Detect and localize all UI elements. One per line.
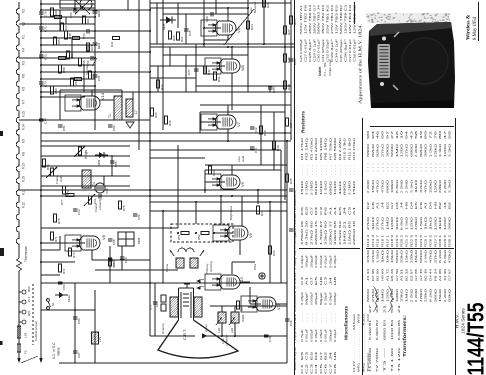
transformer T4: [82, 170, 91, 188]
svg-text:90: 90: [366, 130, 370, 139]
junction dots osc: [177, 232, 179, 234]
capacitor C81: [58, 124, 63, 126]
enclosure line oscillator (dashed): [171, 224, 233, 242]
valve V7: [201, 114, 236, 130]
resistor R52: [201, 231, 209, 234]
wire ladder link a: [59, 10, 61, 31]
rule mid/right divider: [362, 118, 364, 375]
wire right bus E: [280, 150, 282, 283]
svg-text:V5: V5: [22, 87, 26, 91]
svg-text:C23: C23: [293, 59, 297, 65]
svg-text:470kΩ: 470kΩ: [419, 289, 423, 302]
wire top stub x264: [263, 0, 265, 44]
wire ladder rung: [41, 44, 95, 46]
junction dots rails: [162, 210, 164, 212]
rectifier MR8 bridge: [118, 232, 134, 246]
wire rail y92: [150, 91, 291, 93]
svg-text:V2: V2: [22, 9, 26, 13]
deflection coil right: [194, 297, 202, 317]
svg-text:R71: R71: [54, 236, 58, 242]
resistor R48: [64, 31, 67, 39]
capacitor C86: [73, 316, 78, 318]
wire ladder rung: [41, 85, 95, 87]
svg-text:Cabinet screen: Cabinet screen: [34, 320, 38, 341]
svg-text:0·01µF: 0·01µF: [324, 255, 328, 268]
svg-text:1·5kΩ 67: 1·5kΩ 67: [319, 220, 323, 245]
svg-text:Width: Width: [241, 314, 245, 322]
svg-text:C4: C4: [314, 363, 318, 374]
svg-text:R23: R23: [293, 19, 297, 25]
svg-text:89: 89: [424, 130, 428, 139]
svg-text:. . .: . . .: [314, 314, 318, 322]
resistor R23: [289, 16, 292, 24]
coil L30 variable: [218, 312, 226, 323]
wire chassis screen rail: [16, 2, 19, 250]
valve V9: [205, 174, 240, 190]
wire heater pin rail: [18, 286, 20, 352]
svg-text:C85: C85: [114, 161, 118, 167]
svg-text:A1: A1: [352, 206, 356, 215]
svg-text:. . . .: . . . .: [347, 165, 351, 175]
svg-text:E5: E5: [300, 351, 304, 360]
svg-text:0·04µF: 0·04µF: [328, 292, 332, 305]
svg-text:A1: A1: [305, 276, 309, 285]
svg-text:V7: V7: [22, 100, 26, 104]
svg-text:T4 1·6Ω: T4 1·6Ω: [390, 348, 394, 372]
svg-text:A1: A1: [328, 206, 332, 215]
resistor R30: [203, 66, 206, 74]
potentiometer Frame Linearity: [88, 196, 91, 204]
svg-text:0·002µF: 0·002µF: [314, 255, 318, 268]
deflection coil left: [170, 297, 178, 317]
svg-text:C1: C1: [300, 363, 304, 374]
svg-text:500V TB9 B2: 500V TB9 B2: [339, 4, 343, 34]
wire rail y86: [196, 85, 291, 87]
svg-text:0·002µF: 0·002µF: [309, 329, 313, 342]
svg-text:97: 97: [385, 130, 389, 139]
resistor R50: [50, 86, 53, 94]
svg-text:46: 46: [376, 130, 380, 139]
capacitor C26: [210, 12, 212, 17]
svg-text:C27: C27: [187, 69, 191, 75]
svg-text:R34: R34: [110, 41, 114, 47]
svg-text:: : :: : : :: [409, 162, 413, 172]
svg-text:5.1 — TR6: 5.1 — TR6: [323, 62, 327, 76]
wire long rail: [150, 210, 287, 212]
svg-text:. . .: . . .: [319, 314, 323, 322]
svg-text:H8 60: H8 60: [381, 268, 385, 281]
resistor R49: [88, 71, 91, 79]
wire rail y44: [150, 43, 295, 45]
wire ladder rung: [41, 37, 95, 39]
svg-text:J4 36: J4 36: [443, 268, 447, 281]
svg-text:220kΩ: 220kΩ: [424, 289, 428, 302]
svg-text:560Ω: 560Ω: [390, 144, 394, 157]
svg-text:R50: R50: [54, 88, 58, 94]
svg-text:10kΩ: 10kΩ: [385, 250, 389, 263]
wire screen link 4: [19, 189, 41, 191]
svg-text:B2 35: B2 35: [405, 268, 409, 281]
svg-text:T3 —: T3 —: [383, 347, 387, 372]
svg-text:Height: Height: [84, 150, 88, 159]
svg-text:80: 80: [438, 130, 442, 139]
wire drop x158 mid: [157, 66, 159, 92]
svg-text:: : :: : : :: [448, 162, 452, 172]
resistor R76: [68, 248, 71, 256]
svg-text:680Ω: 680Ω: [343, 181, 347, 195]
resistor R61: [82, 16, 85, 24]
svg-text:J4: J4: [328, 276, 332, 285]
anode arrow: [202, 333, 207, 338]
svg-text:560Ω: 560Ω: [419, 250, 423, 263]
svg-text:R27 2: R27 2: [433, 234, 437, 247]
wire rail y47: [150, 46, 295, 48]
svg-text:470kΩ 26: 470kΩ 26: [300, 220, 304, 245]
svg-text:Wireless &: Wireless &: [466, 14, 472, 40]
wire rail y250 left: [41, 249, 60, 251]
svg-text:R38: R38: [263, 130, 267, 136]
svg-text:R27: R27: [287, 29, 291, 35]
svg-text:H8: H8: [333, 276, 337, 285]
svg-text:R26: R26: [266, 2, 270, 8]
svg-text:Focus: Focus: [165, 263, 169, 272]
wire ladder link d: [65, 17, 67, 24]
svg-text:220kΩ 15: 220kΩ 15: [314, 220, 318, 245]
capacitor C77 group: [161, 295, 166, 302]
svg-text:H8: H8: [333, 351, 337, 360]
svg-text:33kΩ: 33kΩ: [400, 250, 404, 263]
capacitor C64b: [93, 74, 98, 76]
wire power vertical 1: [74, 283, 76, 363]
svg-text:6·8kΩ: 6·8kΩ: [400, 217, 404, 230]
resistor R33: [156, 80, 159, 88]
wire top rail: [150, 2, 291, 4]
svg-text:R9 2·2MΩ: R9 2·2MΩ: [338, 138, 342, 160]
svg-text:J4: J4: [443, 201, 447, 209]
CRT funnel: [158, 320, 238, 358]
svg-text:1kΩ: 1kΩ: [429, 217, 433, 230]
svg-text:2·2MΩ: 2·2MΩ: [366, 180, 370, 193]
wire long rail: [150, 201, 287, 203]
svg-text:R44: R44: [260, 210, 264, 216]
wire frame links: [111, 155, 113, 176]
svg-text:R52: R52: [197, 234, 201, 240]
svg-text:0·05µF: 0·05µF: [328, 255, 332, 268]
capacitor C70: [39, 11, 44, 13]
svg-text:* Electrolytic. † Approximate: * Electrolytic. † Approximate resistance…: [293, 195, 297, 373]
resistor R80: [108, 258, 111, 266]
svg-text:: : :: : : :: [433, 162, 437, 172]
svg-text:V13: V13: [22, 163, 26, 169]
svg-text:1MΩ: 1MΩ: [381, 289, 385, 302]
capacitor C63: [73, 208, 78, 210]
svg-text:27: 27: [390, 130, 394, 139]
svg-text:C76: C76: [149, 304, 153, 310]
svg-text:1·5kΩ: 1·5kΩ: [405, 217, 409, 230]
resistor R66h: [55, 16, 62, 19]
diode MR4: [55, 294, 68, 296]
svg-text:R51: R51: [177, 234, 181, 240]
svg-text:15kΩ: 15kΩ: [352, 181, 356, 195]
svg-text:: : :: : : :: [385, 162, 389, 172]
svg-text:8·2kΩ: 8·2kΩ: [438, 250, 442, 263]
svg-text:V10: V10: [240, 277, 244, 284]
svg-text:0·25µF: 0·25µF: [314, 329, 318, 342]
svg-text:R1 47kΩ: R1 47kΩ: [300, 138, 304, 160]
svg-text:G7: G7: [309, 206, 313, 215]
wire ladder link b: [71, 38, 73, 58]
svg-text:E5: E5: [309, 351, 313, 360]
masthead rule: [478, 2, 480, 41]
svg-text:R17 1: R17 1: [385, 234, 389, 247]
svg-text:0·04µF 0·1µF: 0·04µF 0·1µF: [328, 59, 332, 76]
resistor R53: [70, 78, 73, 86]
resistor R62: [60, 23, 63, 31]
svg-text:R8 560Ω: R8 560Ω: [333, 138, 337, 160]
connector pin PL3: [22, 310, 26, 314]
transformer T1: [114, 96, 122, 120]
svg-text:100µµF: 100µµF: [309, 255, 313, 268]
svg-text:C84: C84: [62, 284, 66, 290]
svg-text:: : :: : : :: [419, 162, 423, 172]
CRT gun arrows: [196, 279, 201, 283]
svg-text:58: 58: [414, 130, 418, 139]
capacitor C60: [120, 256, 125, 258]
svg-text:mains: mains: [57, 347, 61, 356]
svg-text:0·04µF: 0·04µF: [300, 255, 304, 268]
svg-text:: : :: : : :: [414, 162, 418, 172]
svg-text:V15: V15: [105, 188, 109, 194]
resistor R45: [285, 174, 288, 182]
capacitor C31: [250, 146, 255, 148]
junction dots mid rails: [203, 43, 205, 45]
svg-text:1MΩ: 1MΩ: [385, 217, 389, 230]
wire CRT rails: [150, 282, 287, 284]
svg-text:10: 10: [400, 130, 404, 139]
svg-text:S1: S1: [51, 302, 55, 306]
svg-text:390Ω: 390Ω: [424, 144, 428, 157]
wire bottom border: [59, 362, 287, 364]
svg-text:R53: R53: [74, 80, 78, 86]
svg-text:F6: F6: [419, 201, 423, 209]
svg-text:. . . .: . . . .: [309, 165, 313, 175]
resistor R56: [66, 51, 69, 59]
svg-text:47: 47: [443, 130, 447, 139]
svg-text:100kΩ: 100kΩ: [429, 180, 433, 193]
svg-text:L30: L30: [217, 328, 221, 333]
capacitor C85: [110, 160, 115, 162]
svg-text:390Ω: 390Ω: [385, 144, 389, 157]
svg-text:2·2MΩ: 2·2MΩ: [414, 144, 418, 157]
svg-text:220kΩ 37: 220kΩ 37: [328, 220, 332, 245]
svg-text:0·25µF: 0·25µF: [319, 329, 323, 342]
svg-text:R77: R77: [60, 199, 64, 205]
svg-text:Linearity: Linearity: [98, 198, 102, 210]
resistor R39: [272, 141, 275, 149]
svg-text:R22 8: R22 8: [409, 234, 413, 247]
wire link x261: [260, 105, 262, 165]
svg-text:350V TB7 G7: 350V TB7 G7: [312, 4, 316, 34]
svg-text:C73: C73: [44, 81, 48, 87]
svg-text:76: 76: [433, 130, 437, 139]
svg-text:: : :: : : :: [390, 162, 394, 172]
svg-text:50µµF: 50µµF: [319, 292, 323, 305]
capacitor C74: [39, 118, 44, 120]
svg-text:8·2kΩ 30: 8·2kΩ 30: [305, 220, 309, 245]
svg-text:D4: D4: [314, 351, 318, 360]
svg-text:Transformers:: Transformers:: [402, 314, 407, 357]
coil L7: [126, 99, 133, 117]
connector pin PL2: [22, 300, 26, 304]
svg-text:G7 67: G7 67: [448, 268, 452, 281]
svg-text:2·2MΩ: 2·2MΩ: [400, 180, 404, 193]
svg-text:: : :: : : :: [381, 162, 385, 172]
svg-text:L7: L7: [134, 110, 138, 114]
resistor R46: [268, 246, 271, 254]
svg-text:PL1: PL1: [27, 296, 31, 302]
svg-text:C35 325µµF: C35 325µµF: [339, 39, 343, 62]
svg-text:325µµF: 325µµF: [314, 292, 318, 305]
svg-text:C30: C30: [268, 336, 272, 342]
svg-text:: : :: : : :: [429, 162, 433, 172]
resistor R35: [164, 116, 167, 124]
svg-text:1MΩ: 1MΩ: [405, 289, 409, 302]
coil L33: [92, 332, 99, 344]
svg-text:G7: G7: [309, 276, 313, 285]
svg-text:V9: V9: [240, 181, 245, 187]
resistor R27: [283, 26, 286, 34]
svg-text:C3: C3: [305, 351, 309, 360]
svg-text:MR4: MR4: [97, 43, 101, 49]
svg-text:R3 470kΩ: R3 470kΩ: [309, 138, 313, 160]
wire link x232 v7: [231, 86, 233, 110]
resistor R74: [62, 186, 65, 194]
svg-text:15kΩ: 15kΩ: [371, 180, 375, 193]
svg-text:: : :: : : :: [405, 162, 409, 172]
svg-text:150V TB9 C3: 150V TB9 C3: [343, 4, 347, 34]
svg-text:C64: C64: [97, 75, 101, 81]
svg-text:120Ω: 120Ω: [385, 289, 389, 302]
svg-text:82kΩ: 82kΩ: [448, 289, 452, 302]
svg-text:C37 0·01µF: C37 0·01µF: [348, 39, 352, 62]
svg-text:G7 45: G7 45: [419, 268, 423, 281]
resistor R65: [53, 37, 56, 45]
wire rail y133: [41, 132, 291, 134]
valve V1 (partial top): [80, 0, 92, 10]
svg-text:OS3: OS3: [253, 264, 257, 270]
resistor R79: [53, 214, 56, 222]
CRT electrodes: [183, 293, 189, 295]
capacitor C23: [289, 58, 294, 60]
svg-text:680Ω: 680Ω: [385, 180, 389, 193]
svg-text:B2: B2: [438, 201, 442, 209]
svg-text:27kΩ: 27kΩ: [371, 289, 375, 302]
svg-text:680Ω: 680Ω: [328, 181, 332, 195]
svg-text:C28 8µF*: C28 8µF*: [308, 37, 312, 62]
svg-text:350V TB2 D4: 350V TB2 D4: [321, 4, 325, 34]
svg-text:27kΩ: 27kΩ: [376, 217, 380, 230]
svg-text:Mixer: Mixer: [67, 295, 71, 302]
svg-text:J4: J4: [343, 206, 347, 215]
svg-text:MR2 . . . . . . . . . . . . .: MR2 . . . . . . . . . . . . . . . K3/25: [361, 313, 365, 372]
valve V8: [65, 235, 100, 251]
wire rail y170: [205, 169, 281, 171]
capacitor C34: [289, 188, 294, 190]
svg-text:R81: R81: [27, 310, 31, 316]
svg-text:R39: R39: [276, 145, 280, 151]
svg-text:R10 3·3kΩ: R10 3·3kΩ: [343, 138, 347, 160]
svg-text:27kΩ 93: 27kΩ 93: [338, 220, 342, 245]
wire ladder rung: [41, 64, 95, 66]
wire rail y283: [41, 282, 150, 284]
resistor R71: [50, 232, 53, 240]
wire ladder rung: [41, 91, 150, 93]
wire rail y120: [41, 119, 150, 121]
wire link x196: [195, 44, 197, 92]
svg-text:C38 0·01µF: C38 0·01µF: [352, 39, 356, 62]
svg-text:500V TB2 J4: 500V TB2 J4: [317, 4, 321, 34]
svg-text:A1: A1: [333, 206, 337, 215]
svg-text:15kΩ: 15kΩ: [405, 250, 409, 263]
diode MR9: [95, 154, 108, 156]
svg-text:0·001µF: 0·001µF: [305, 329, 309, 342]
svg-text:390Ω: 390Ω: [448, 217, 452, 230]
svg-text:R45: R45: [289, 178, 293, 184]
svg-text:V10: V10: [22, 176, 26, 182]
svg-text:C74: C74: [44, 118, 48, 124]
wire rail y156: [41, 155, 130, 157]
wire mains link diagonal: [21, 356, 38, 363]
diode MR4b: [93, 42, 98, 44]
wire link x186: [185, 55, 187, 92]
svg-text:C81: C81: [62, 125, 66, 131]
svg-text:E5 57: E5 57: [409, 268, 413, 281]
svg-text:1kΩ: 1kΩ: [395, 217, 399, 230]
brace transformers 2: [388, 286, 394, 312]
capacitor C71: [39, 26, 44, 28]
svg-text:120Ω: 120Ω: [443, 144, 447, 157]
svg-text:. . . .: . . . .: [319, 165, 323, 175]
resistor R73: [42, 159, 45, 167]
svg-text:1·5kΩ: 1·5kΩ: [419, 217, 423, 230]
svg-text:2·2MΩ: 2·2MΩ: [414, 289, 418, 302]
svg-text:15kΩ: 15kΩ: [414, 250, 418, 263]
wire right links: [248, 91, 291, 93]
brace transformers 1: [373, 286, 379, 312]
svg-text:: : :: : : :: [395, 162, 399, 172]
wire ladder rung: [41, 30, 150, 32]
svg-text:L29: L29: [230, 328, 234, 333]
svg-text:27kΩ 95: 27kΩ 95: [309, 220, 313, 245]
svg-text:0·001µF: 0·001µF: [324, 329, 328, 342]
wire V11 leads: [250, 303, 261, 305]
mains arrow right: [39, 358, 43, 363]
svg-text:1kΩ: 1kΩ: [371, 217, 375, 230]
svg-text:R29: R29: [287, 84, 291, 90]
svg-text:F6 34: F6 34: [433, 268, 437, 281]
svg-text:J4: J4: [328, 351, 332, 360]
svg-text:27: 27: [368, 304, 372, 313]
wire rail y310: [41, 309, 95, 311]
svg-text:C80: C80: [112, 125, 116, 131]
svg-text:2·2MΩ: 2·2MΩ: [409, 289, 413, 302]
svg-text:Brightness: Brightness: [229, 205, 233, 220]
svg-text:47kΩ: 47kΩ: [419, 180, 423, 193]
svg-text:Miscellaneous: Miscellaneous: [344, 305, 349, 340]
svg-text:6·8kΩ: 6·8kΩ: [443, 250, 447, 263]
svg-text:27kΩ: 27kΩ: [381, 144, 385, 157]
coil top arcs: [178, 248, 186, 252]
